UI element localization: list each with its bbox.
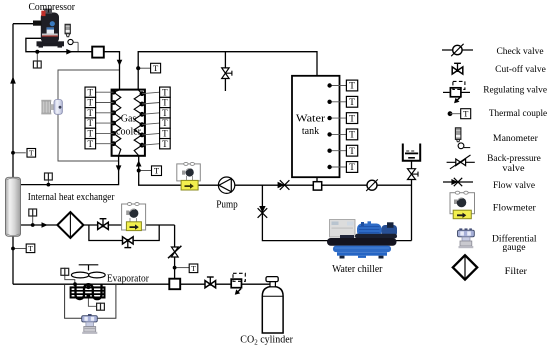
svg-text:Water: Water	[296, 114, 326, 125]
svg-text:Water chiller: Water chiller	[332, 264, 383, 275]
svg-text:Check valve: Check valve	[496, 46, 544, 57]
svg-text:Cut-off valve: Cut-off valve	[495, 64, 546, 75]
svg-text:Internal heat exchanger: Internal heat exchanger	[28, 192, 115, 203]
svg-text:gauge: gauge	[502, 242, 526, 253]
svg-text:cooler: cooler	[116, 127, 142, 138]
svg-text:Evaporator: Evaporator	[107, 274, 150, 285]
svg-text:Flowmeter: Flowmeter	[493, 202, 537, 213]
svg-text:valve: valve	[502, 163, 525, 174]
svg-text:T: T	[463, 109, 469, 119]
svg-text:Pump: Pump	[216, 200, 238, 211]
svg-text:tank: tank	[302, 126, 319, 137]
svg-text:Compressor: Compressor	[29, 2, 76, 13]
svg-text:CO2 cylinder: CO2 cylinder	[240, 334, 293, 346]
svg-text:Manometer: Manometer	[493, 133, 539, 144]
svg-text:Regulating valve: Regulating valve	[483, 85, 547, 96]
svg-text:Gas: Gas	[121, 114, 137, 125]
svg-text:Filter: Filter	[505, 266, 528, 277]
svg-text:Thermal couple: Thermal couple	[489, 108, 548, 119]
svg-text:Flow valve: Flow valve	[493, 180, 536, 191]
